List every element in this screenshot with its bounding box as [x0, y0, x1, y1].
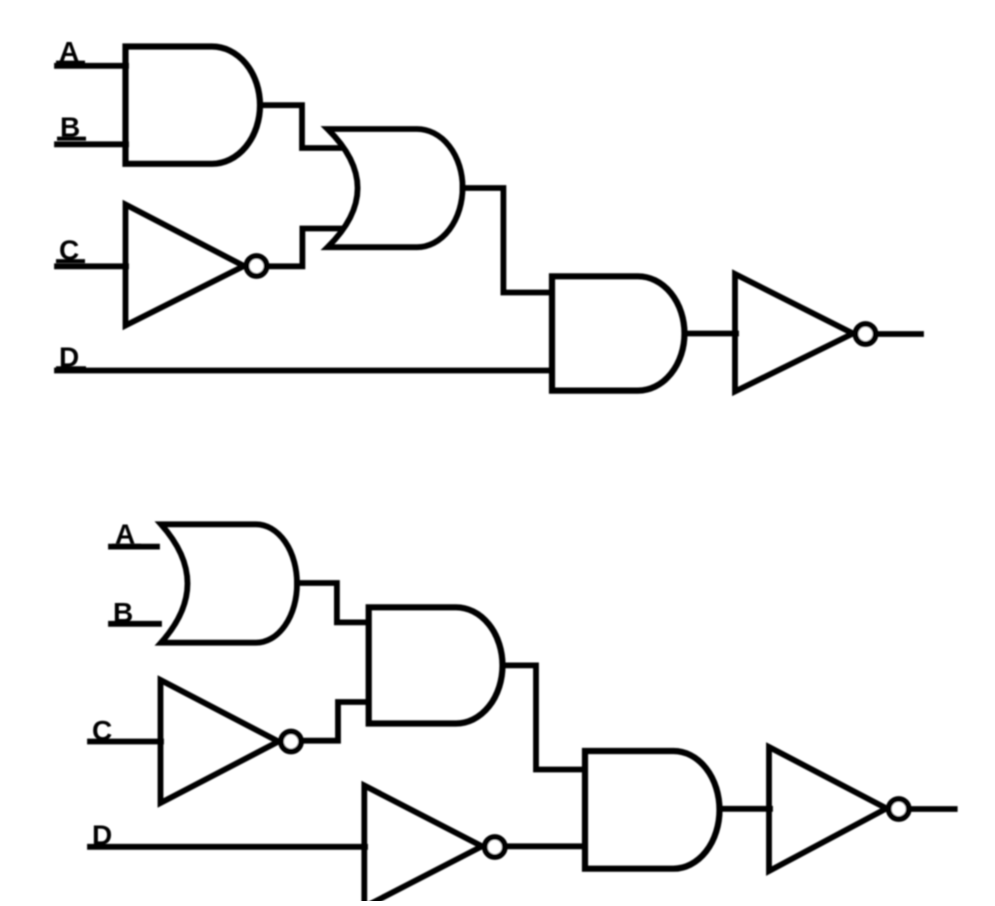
wire bottom circuit output — [911, 806, 955, 812]
wire A underline/lead — [58, 61, 83, 65]
inverter U2 bubble — [247, 256, 267, 276]
node D (bottom input label) — [92, 820, 112, 851]
wire U4 output to NOT2 — [685, 331, 737, 337]
and-gate U8 (inputs from U6 and U7) — [369, 607, 503, 723]
node A (top input label) — [59, 36, 79, 67]
wire C underline/lead — [58, 259, 83, 263]
wire D to NOT4 — [90, 844, 365, 850]
inverter U7 bubble — [281, 732, 301, 752]
wire U7 output to AND3 input2 (step) — [304, 702, 369, 741]
wire B to AND1 — [57, 141, 126, 147]
node B (bottom input label) — [113, 597, 133, 628]
wire C underline/lead — [91, 740, 116, 744]
inverter U7 triangle (input C bottom) — [161, 680, 279, 803]
wire U9 output to AND4 input2 — [507, 843, 584, 849]
inverter U5 triangle (top output) — [735, 274, 853, 392]
or-gate U3 (inputs from U1 and U2) — [328, 129, 463, 247]
and-gate U4 (inputs from U3 and D) — [552, 276, 684, 390]
node D (top input label) — [59, 342, 79, 373]
inverter U11 bubble — [889, 799, 909, 819]
inverter U11 triangle (bottom output) — [769, 747, 887, 871]
wire A to AND1 — [57, 63, 126, 69]
wire A to OR2 — [111, 544, 157, 550]
wire C to NOT1 — [57, 263, 126, 269]
wire D underline/lead — [58, 366, 84, 370]
or-gate U6 (inputs A,B bottom) — [161, 524, 297, 642]
wire D underline/lead — [91, 845, 116, 849]
node B (top input label) — [60, 112, 80, 143]
wire A underline/lead — [114, 544, 139, 548]
wire U3 output to AND2 input1 (step) — [463, 188, 551, 293]
wire U10 output to NOT5 — [720, 806, 771, 812]
wire U8 output to AND4 input1 (step) — [503, 665, 585, 769]
wire B underline/lead — [59, 137, 84, 141]
inverter U5 bubble — [856, 324, 876, 344]
and-gate U10 (inputs from U8 and U9) — [585, 751, 720, 869]
inverter U9 bubble — [485, 837, 505, 857]
node C (bottom input label) — [92, 715, 112, 746]
wire D to AND2 input2 — [57, 368, 551, 374]
wire U6 output to AND3 input1 (step) — [297, 583, 368, 622]
wire top circuit output — [878, 331, 921, 337]
and-gate U1 (inputs A,B) — [126, 47, 261, 164]
wire U2 output to OR1 input2 (step) — [269, 229, 339, 267]
wire B to OR2 — [111, 621, 159, 627]
wire U1 output to OR1 input1 (step) — [260, 105, 339, 148]
wire C to NOT3 — [90, 739, 161, 745]
inverter U9 triangle (input D bottom) — [364, 786, 482, 906]
inverter U2 triangle (input C) — [126, 205, 245, 326]
node C (top input label) — [59, 235, 79, 266]
wire B underline/lead — [112, 622, 137, 626]
node A (bottom input label) — [115, 519, 135, 550]
